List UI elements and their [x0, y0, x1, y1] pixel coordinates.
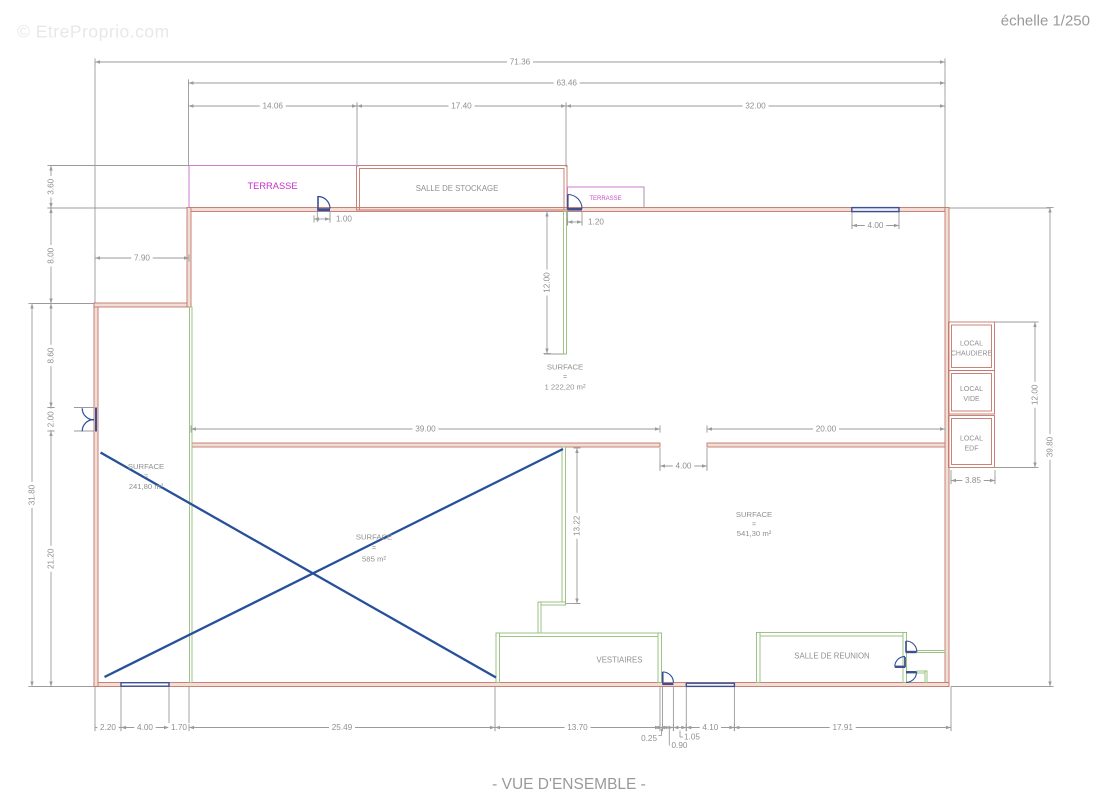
wall upper-left vertical (x187, y207.5-307) [187, 208, 191, 308]
svg-text:4.00: 4.00 [137, 723, 153, 732]
svg-text:32.00: 32.00 [745, 102, 766, 111]
svg-text:=: = [752, 521, 756, 528]
label 1.05 with leader [680, 731, 700, 742]
dimension 20.00 [707, 425, 945, 434]
dimension 7.90 [95, 254, 189, 263]
dimension 4.10 [686, 723, 734, 732]
svg-text:12.00: 12.00 [1031, 384, 1040, 405]
svg-text:17.40: 17.40 [451, 102, 472, 111]
extension line bottom v x189 [188, 687, 190, 732]
room box LOCAL VIDE [949, 371, 995, 415]
svg-text:échelle 1/250: échelle 1/250 [1001, 12, 1090, 29]
interior wall right part (y443, x707-945) [707, 443, 945, 447]
svg-text:2.00: 2.00 [47, 411, 56, 427]
extension line horizontal y431 [74, 430, 96, 432]
wall left lower (x94, y303-686) [94, 303, 98, 687]
svg-text:SALLE DE REUNION: SALLE DE REUNION [794, 652, 869, 661]
door SALLE DE REUNION upper (arc right) [906, 641, 917, 653]
svg-text:3.85: 3.85 [965, 476, 981, 485]
svg-text:4.00: 4.00 [868, 221, 884, 230]
extension line 3.85 right leg [994, 470, 996, 484]
dimension 39.00 [191, 425, 660, 434]
door 1.00 (top wall, leaf + quarter arc) [317, 196, 330, 222]
svg-text:4.00: 4.00 [676, 462, 692, 471]
svg-text:SALLE DE STOCKAGE: SALLE DE STOCKAGE [416, 184, 499, 193]
svg-text:=: = [144, 473, 148, 480]
svg-text:241,80 m²: 241,80 m² [129, 482, 164, 491]
svg-text:31.80: 31.80 [28, 484, 37, 505]
extension line 12.00 right top [995, 321, 1035, 323]
label 0.90 with leader [669, 729, 688, 751]
dimension 4.00 window top [852, 221, 899, 230]
green wall step horizontal (y600, x538-565.5) [538, 602, 566, 605]
svg-text:=: = [563, 374, 567, 381]
dimension 13.70 [495, 723, 660, 732]
svg-text:13.70: 13.70 [567, 723, 588, 732]
svg-text:20.00: 20.00 [816, 425, 837, 434]
terrace 2 right grey drop [643, 187, 645, 208]
wall right (x945, y207.5-686.5) [945, 208, 949, 687]
svg-text:39.00: 39.00 [415, 425, 436, 434]
door closet (arc down-right) [906, 671, 917, 682]
dimension 25.49 [189, 723, 495, 732]
dimension 3.85 [951, 476, 995, 485]
extension line bottom v x95 [94, 687, 96, 732]
dimension 14.06 [189, 102, 358, 111]
extension line vertical x188.5 [188, 83, 190, 166]
svg-text:8.60: 8.60 [47, 347, 56, 363]
dimension 8.60 [47, 304, 56, 408]
svg-text:- VUE D'ENSEMBLE -: - VUE D'ENSEMBLE - [492, 776, 646, 793]
green wall lower center vertical (x562, y447-602.5) [562, 447, 566, 605]
dimension 8.00 [47, 208, 56, 304]
room box SALLE DE STOCKAGE inner [360, 169, 565, 211]
dimension 4.00 bottom [121, 723, 169, 732]
svg-text:VIDE: VIDE [963, 396, 980, 403]
svg-text:0.25: 0.25 [641, 734, 657, 743]
extension line 3.85 left leg [950, 470, 952, 484]
svg-text:71.36: 71.36 [510, 58, 531, 67]
dimension 39.80 [1046, 208, 1055, 687]
interior wall left part (y443, x191-660) [191, 443, 660, 447]
svg-text:13.22: 13.22 [573, 515, 582, 536]
green wall upper center vertical (x563.5, y211.5-354) [564, 212, 567, 355]
svg-text:25.49: 25.49 [332, 723, 353, 732]
svg-text:VESTIAIRES: VESTIAIRES [597, 656, 643, 665]
svg-text:21.20: 21.20 [47, 548, 56, 569]
cross diagonal line 1 (top-left to bottom-right) [101, 453, 497, 678]
dimension 0.25 [658, 724, 666, 731]
dimension 3.60 [47, 166, 56, 209]
green wall SALLE DE REUNION right (x903) [903, 633, 907, 683]
dimension 0.90 [663, 724, 674, 731]
dimension 4.00 middle door legs [659, 448, 661, 471]
svg-text:SURFACE: SURFACE [547, 363, 583, 372]
wall step horizontal (y303, x94-191) [94, 303, 191, 307]
terrace 2 outline (magenta) [568, 187, 645, 208]
extension line door 1.20 right leg [581, 212, 583, 225]
svg-text:TERRASSE: TERRASSE [247, 181, 297, 191]
extension line horizontal y208 left [51, 207, 188, 209]
extension line bottom v x734.4 [733, 687, 735, 732]
green wall VESTIAIRES left (x496, y633-683) [496, 633, 500, 683]
room box SALLE DE STOCKAGE outer [357, 166, 568, 211]
green wall VESTIAIRES top (y633, x496-661) [496, 633, 661, 637]
extension line bottom v x951 [950, 687, 952, 732]
green wall corridor (y650.5, x917-945) [917, 651, 945, 653]
svg-text:1 222,20 m²: 1 222,20 m² [544, 383, 585, 392]
svg-text:© EtreProprio.com: © EtreProprio.com [17, 22, 170, 42]
extension line window 4.00 left leg [851, 212, 853, 229]
extension line horizontal y303.5 [32, 303, 94, 305]
svg-text:4.10: 4.10 [702, 723, 718, 732]
extension line left top vertical x95 [94, 62, 96, 303]
svg-text:17.91: 17.91 [832, 723, 853, 732]
svg-text:541,30 m²: 541,30 m² [737, 529, 772, 538]
wall top (x189-945, y207.5) [189, 208, 945, 212]
extension line bottom v x495 [494, 685, 496, 731]
svg-text:CHAUDIERE: CHAUDIERE [951, 350, 993, 357]
dimension 4.00 middle door [660, 462, 707, 471]
dimension 12.00 right [1031, 322, 1040, 468]
svg-text:63.46: 63.46 [557, 79, 578, 88]
svg-text:12.00: 12.00 [543, 272, 552, 293]
dimension 13.22 [573, 448, 582, 604]
room box LOCAL EDF [949, 416, 995, 468]
svg-text:SURFACE: SURFACE [736, 510, 772, 519]
dimension 1.00 door [314, 215, 330, 222]
extension line bottom v x686.3 [685, 687, 687, 732]
extension line door 1.20 left leg [567, 212, 569, 225]
dimension 2.00 [47, 408, 56, 432]
svg-text:EDF: EDF [965, 445, 979, 452]
extension line bottom v x660 [659, 685, 661, 729]
svg-text:=: = [372, 545, 376, 552]
svg-text:LOCAL: LOCAL [960, 386, 983, 393]
extension line horizontal y686.5 left [32, 686, 94, 688]
green wall step vertical (x538, y600-635) [538, 602, 541, 635]
label 0.25 with leader [641, 729, 661, 744]
dimension 63.46 [189, 79, 946, 88]
green wall SALLE DE REUNION top (y632.5, x756.5-906.5) [757, 633, 907, 637]
svg-text:LOCAL: LOCAL [960, 340, 983, 347]
window 4.10 bottom wall [686, 683, 734, 686]
extension line window 4.00 right leg [898, 212, 900, 229]
svg-text:39.80: 39.80 [1046, 436, 1055, 457]
green wall left wing vertical (x189.5, y307-683) [190, 307, 193, 683]
extension line bottom v x169 [168, 686, 170, 731]
green wall closet right (x925, y671-683) [925, 671, 927, 683]
extension line bottom v x662.5 [662, 685, 664, 729]
extension line bottom v x121 [120, 686, 122, 731]
dimension 31.80 [28, 304, 37, 687]
svg-text:1.70: 1.70 [171, 723, 187, 732]
svg-text:8.00: 8.00 [47, 247, 56, 263]
door 1.20 (top wall at terrace 2) [568, 195, 583, 211]
svg-text:SURFACE: SURFACE [128, 462, 164, 471]
svg-text:1.00: 1.00 [336, 215, 352, 224]
svg-text:SURFACE: SURFACE [356, 533, 392, 542]
extension line horizontal y407.5 [74, 407, 96, 409]
svg-text:3.60: 3.60 [47, 178, 56, 194]
dimension 12.00 top middle [543, 212, 552, 354]
terrace 1 outline (magenta) [189, 166, 358, 208]
extension line 12.00 right bottom [995, 467, 1035, 469]
svg-text:TERRASSE: TERRASSE [589, 196, 621, 202]
extension line 12.00 bottom connector [544, 353, 567, 355]
dimension 17.40 [357, 102, 566, 111]
dimension 17.91 [734, 723, 951, 732]
window 4.00 top wall [852, 208, 899, 212]
svg-text:7.90: 7.90 [134, 254, 150, 263]
dimension 71.36 [95, 58, 945, 67]
svg-text:14.06: 14.06 [263, 102, 284, 111]
extension line vertical x566 [565, 106, 567, 167]
svg-text:0.90: 0.90 [672, 741, 688, 750]
door SALLE DE REUNION middle (arc left) [895, 656, 906, 668]
dimension 21.20 [47, 431, 56, 687]
extension line vertical x945 [944, 62, 946, 208]
svg-text:2.20: 2.20 [100, 723, 116, 732]
svg-text:585 m²: 585 m² [362, 555, 386, 564]
extension line vertical x357 [356, 106, 358, 166]
svg-text:1.20: 1.20 [588, 218, 604, 227]
svg-text:LOCAL: LOCAL [960, 435, 983, 442]
room box LOCAL CHAUDIERE [949, 322, 995, 371]
green wall VESTIAIRES right (x658, y633-683) [658, 633, 662, 683]
dimension 2.20 [95, 723, 121, 732]
double door (left wall, two quarter arcs) [82, 408, 96, 432]
extension line horizontal y686.5 right [951, 686, 1050, 688]
extension line 13.22 bottom connector [566, 603, 580, 605]
dimension 1.05 [673, 724, 686, 731]
extension line bottom v x673.4 [672, 685, 674, 731]
dimension 1.70 [168, 723, 189, 732]
extension line horizontal y208 right [949, 207, 1050, 209]
cross diagonal line 2 (bottom-left to top-right) [105, 449, 564, 677]
wall bottom (y682.5) [94, 683, 949, 687]
green wall closet top (y671, x917-927) [917, 671, 927, 673]
door 0.90 (VESTIAIRES right) [662, 672, 673, 685]
window 4.00 bottom-left wall [121, 683, 169, 687]
green wall SALLE DE REUNION left (x756.5) [757, 633, 761, 683]
dimension 1.20 door [568, 218, 583, 225]
dimension 32.00 [566, 102, 945, 111]
extension line horizontal y165.5 [51, 165, 189, 167]
